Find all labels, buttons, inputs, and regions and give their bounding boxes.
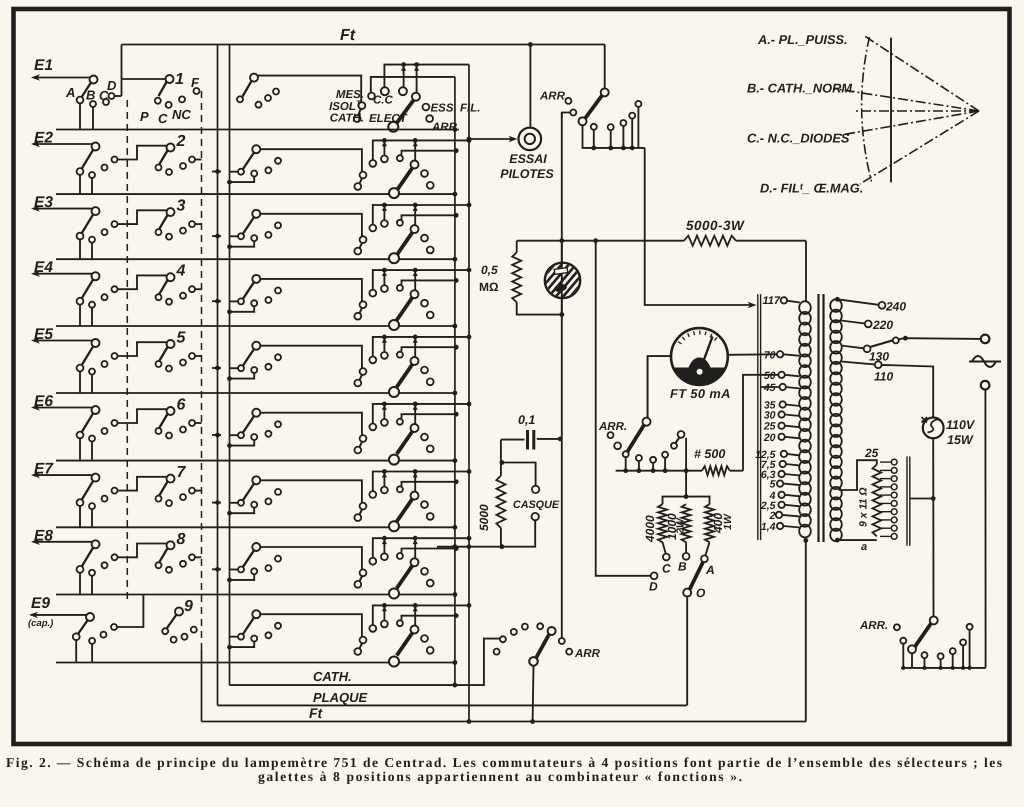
wire row 6 bracket line: [402, 414, 457, 418]
svg-text:110: 110: [874, 370, 893, 384]
wire row 7 bottom bus: [56, 526, 455, 528]
wire E5 arrow lead: [33, 340, 94, 342]
wire shaft tick row 3: [212, 235, 221, 237]
svg-text:CATH.: CATH.: [330, 113, 364, 125]
wire D contact to selector 6 bracket: [118, 409, 167, 423]
wire shaft tick row 8: [212, 568, 221, 570]
wire bracket bus x455: [454, 77, 456, 685]
wire feeder to ESSAI PILOTES jack: [469, 138, 515, 140]
wire E3 arrow lead: [33, 208, 94, 210]
resistor #500: [702, 466, 730, 475]
wire CATH bus: [230, 639, 500, 686]
wire 130 to AC terminal: [905, 337, 981, 340]
switch S8d combinator wafer: [397, 566, 413, 589]
svg-text:O: O: [696, 586, 706, 600]
switch S8a electrode selector: [82, 548, 94, 567]
transformer primary winding: [799, 301, 811, 314]
switch S8c galette contact group: [230, 569, 239, 571]
node F contact row 6: [189, 420, 195, 426]
wire feeder bus x469: [468, 65, 470, 722]
wire row 9 bracket line: [402, 616, 457, 620]
transformer secondary winding: [830, 299, 842, 312]
symbol AC sine: [969, 356, 1001, 367]
svg-text:a: a: [861, 541, 867, 553]
switch S3c galette contact group: [230, 235, 239, 237]
wire row 4 upper feed line: [373, 270, 469, 290]
wire D contact to selector 4 bracket: [118, 275, 167, 289]
wire selector 1 bracket: [122, 78, 166, 80]
svg-text:ARR.: ARR.: [859, 620, 888, 632]
resistor 400 1W: [705, 504, 714, 542]
wire row 3 upper feed line: [373, 205, 469, 225]
svg-text:ARR.: ARR.: [598, 421, 627, 433]
svg-text:E9: E9: [31, 595, 50, 612]
svg-text:Ft: Ft: [309, 705, 324, 721]
resistor bank bracket: [663, 497, 710, 505]
terminal AC top: [981, 335, 990, 344]
svg-text:F: F: [191, 75, 200, 90]
wire jack to Ft bus riser: [529, 45, 531, 128]
svg-text:CASQUE: CASQUE: [513, 499, 560, 511]
node 220 tap: [841, 321, 865, 324]
wire D contact to selector 8 bracket: [118, 544, 167, 558]
svg-text:70: 70: [764, 349, 776, 361]
switch S1a electrode selector A B C D: [81, 83, 91, 98]
wire E2 arrow lead: [33, 143, 94, 145]
wire AC bottom terminal down: [984, 390, 986, 668]
switch S7c galette contact group: [230, 502, 239, 504]
wire shaft tick row 4: [212, 300, 221, 302]
svg-text:9: 9: [184, 598, 193, 615]
wire shaft tick row 5: [212, 367, 221, 369]
svg-text:NC: NC: [172, 107, 191, 122]
transformer screen bar primary: [757, 294, 759, 540]
svg-text:A.- PL._PUISS.: A.- PL._PUISS.: [757, 32, 848, 47]
svg-text:3: 3: [177, 198, 186, 215]
svg-text:Ft: Ft: [340, 27, 356, 44]
switch ARR essai comb contacts: [591, 124, 597, 130]
wire ARR essai comb bus: [583, 125, 645, 148]
switch S1c galette contact group: [243, 81, 252, 97]
switch S7a electrode selector: [82, 481, 94, 500]
switch ARR measure comb: [623, 451, 629, 457]
svg-text:9 x 11 Ω: 9 x 11 Ω: [858, 487, 870, 527]
node ESS ARR contacts row 1: [423, 104, 430, 111]
svg-text:ESS.: ESS.: [431, 103, 457, 115]
node F contact row 5: [189, 353, 195, 359]
resistor 4000: [658, 504, 667, 542]
wire D contact to selector 7 bracket: [118, 477, 167, 491]
svg-text:C: C: [662, 562, 671, 576]
wire row 2 pivot line: [260, 149, 362, 172]
switch S7d combinator wafer: [397, 499, 413, 522]
switch S6b selector position 6: [159, 414, 167, 428]
wire O to PLAQUE bus: [686, 597, 688, 706]
switch S5d combinator wafer: [397, 364, 413, 387]
resistor 5000 casque: [500, 440, 502, 476]
wire F-contacts bus (dashed) down to Ft bottom: [201, 91, 203, 650]
switch S2d combinator wafer: [397, 168, 413, 191]
wire E7 arrow lead: [33, 474, 94, 476]
svg-text:galettes à 8 positions apparti: galettes à 8 positions appartiennent au …: [258, 769, 742, 784]
switch S4a electrode selector: [82, 279, 94, 298]
svg-text:117: 117: [763, 295, 781, 307]
svg-text:CATH.: CATH.: [313, 669, 352, 684]
switch S5a electrode selector: [82, 346, 94, 365]
wire row 4 bottom bus: [56, 325, 455, 327]
svg-text:D: D: [649, 580, 658, 594]
wire comb bus down to 117 tap: [645, 148, 753, 305]
wire secondary bottom to chain: [836, 539, 877, 541]
svg-text:D: D: [107, 78, 117, 93]
wire row 1 pivot line to ISOL contact: [258, 76, 361, 103]
svg-text:1W: 1W: [722, 513, 734, 530]
wire D contact to selector 3 bracket: [118, 210, 167, 224]
switch S1d combinator wafer: [396, 100, 414, 124]
svg-text:4000: 4000: [643, 515, 657, 543]
wire row 7 bracket line: [402, 482, 457, 486]
svg-text:4: 4: [176, 263, 186, 280]
wire shaft tick row 2: [212, 171, 221, 173]
terminal AC bottom: [981, 381, 990, 390]
wire row 4 pivot line: [260, 279, 362, 302]
svg-text:MΩ: MΩ: [479, 280, 499, 294]
switch S4c galette contact group: [230, 300, 239, 302]
svg-text:5: 5: [177, 330, 187, 347]
switch S3d combinator wafer: [397, 233, 413, 256]
wire row 7 upper feed line: [373, 472, 469, 492]
meter FT 50 mA: [648, 356, 671, 418]
node F contact row 1: [194, 88, 200, 94]
jack ESSAI PILOTES: [519, 128, 542, 151]
wire row 3 bottom bus: [56, 258, 455, 260]
wire row 2 bracket line: [402, 151, 457, 155]
svg-text:FT 50 mA: FT 50 mA: [670, 386, 731, 401]
wire row1 D to Ft vertical: [121, 45, 123, 97]
svg-text:1: 1: [175, 71, 184, 88]
node 240 tap: [835, 297, 840, 302]
node F contact row 7: [189, 488, 195, 494]
wire E8 arrow lead: [33, 541, 94, 543]
wire Ft bottom bus: [202, 721, 806, 723]
wire screen to lamp line: [910, 498, 933, 500]
svg-text:B: B: [678, 560, 687, 574]
switch S2a electrode selector: [82, 150, 94, 169]
wire HT feed line: [517, 240, 684, 242]
svg-text:PILOTES: PILOTES: [500, 167, 554, 181]
wire row 6 upper feed line: [373, 404, 469, 424]
wire D contact to selector 5 bracket: [118, 342, 167, 356]
switch S9c galette contact group: [230, 636, 239, 638]
wire row 5 upper feed line: [373, 337, 469, 357]
wire row 6 pivot line: [260, 413, 362, 436]
svg-text:(cap.): (cap.): [28, 618, 53, 629]
wire primary bottom to Ft bus: [805, 540, 807, 721]
svg-text:6: 6: [177, 397, 186, 414]
switch S6d combinator wafer: [397, 431, 413, 454]
wire row 2 bottom bus: [56, 193, 455, 195]
wire D contact to selector 2 bracket: [118, 146, 167, 160]
wire E4 arrow lead: [33, 273, 94, 275]
node 110 tap: [841, 362, 875, 365]
svg-text:2W: 2W: [675, 517, 687, 535]
svg-text:C.- N.C._DIODES: C.- N.C._DIODES: [747, 131, 850, 146]
svg-text:20: 20: [763, 432, 776, 444]
svg-text:1,4: 1,4: [761, 521, 776, 533]
wire row 1 bottom bus: [56, 129, 455, 131]
svg-text:P: P: [140, 109, 149, 124]
switch S4b selector position 4: [159, 280, 167, 294]
wire D contact row 9 riser: [117, 595, 143, 628]
resistor 1000 2W: [682, 504, 691, 542]
node F contact row 4: [189, 286, 195, 292]
wire row 7 pivot line: [260, 480, 362, 503]
node F contact row 3: [189, 221, 195, 227]
wire legend fan lines: [863, 35, 979, 111]
switch S6a electrode selector: [82, 413, 94, 432]
wire row 1 upper line: [371, 77, 455, 93]
svg-text:240: 240: [885, 300, 906, 314]
lamp neon indicator: [561, 241, 563, 263]
node F contact row 2: [189, 157, 195, 163]
svg-text:8: 8: [177, 531, 186, 548]
svg-text:25: 25: [864, 446, 879, 460]
wire row 3 pivot line: [260, 214, 362, 237]
transformer core: [817, 294, 819, 542]
svg-text:ESSAI: ESSAI: [509, 152, 547, 166]
jack CASQUE: [500, 460, 505, 465]
svg-text:D.- FILt_ Œ.MAG.: D.- FILt_ Œ.MAG.: [760, 181, 863, 196]
wire PLAQUE bus: [218, 704, 687, 706]
wire E1 arrow lead: [33, 77, 92, 79]
transformer screen bar secondary: [906, 457, 908, 546]
svg-text:5000-3W: 5000-3W: [686, 218, 745, 233]
svg-text:B: B: [86, 88, 95, 103]
wire row 9 upper feed line: [373, 605, 469, 625]
svg-text:C.C: C.C: [373, 95, 394, 107]
svg-text:PLAQUE: PLAQUE: [313, 690, 368, 705]
wire long vertical x596 to D contact: [596, 241, 651, 576]
switch S1b selector position 1: [159, 82, 167, 96]
wire E6 arrow lead: [33, 407, 94, 409]
wire primary top to HT feed: [805, 241, 807, 303]
wire Ft top bus: [122, 44, 606, 46]
wire row 8 upper feed line: [373, 538, 469, 558]
svg-text:0,1: 0,1: [518, 413, 535, 427]
wire row 9 pivot line: [260, 614, 362, 637]
node 130 tap and switch: [841, 346, 864, 349]
wire row 2 upper feed line: [373, 140, 469, 160]
switch S7b selector position 7: [159, 482, 167, 496]
wire row 4 bracket line: [402, 280, 457, 284]
wire row 5 bracket line: [402, 347, 457, 351]
switch S3b selector position 3: [159, 215, 167, 229]
svg-text:E1: E1: [34, 57, 53, 74]
wire row 5 pivot line: [260, 346, 362, 369]
svg-text:2: 2: [176, 133, 186, 150]
resistor 0,5 Mohm: [516, 241, 518, 253]
wire row 8 bottom bus: [56, 594, 455, 596]
wire lamp down to ARR switch: [932, 438, 934, 616]
wire row 9 bottom bus: [56, 662, 455, 664]
wire neon riser x562: [561, 113, 563, 642]
wire ARR secteur bus: [901, 667, 986, 669]
switch S9d combinator wafer: [397, 633, 413, 656]
wire 50V tap riser: [743, 375, 778, 471]
svg-text:C: C: [158, 111, 168, 126]
wire legend chord line: [890, 38, 892, 183]
svg-text:5: 5: [770, 479, 776, 491]
wire dashed selector coupling line left: [126, 100, 128, 603]
switch S8b selector position 8: [159, 548, 167, 562]
wire shunt riser to resistor bank: [685, 438, 687, 497]
switch ARR cath: [494, 649, 500, 655]
wire row 5 bottom bus: [56, 392, 455, 394]
svg-text:B.- CATH._NORM.: B.- CATH._NORM.: [747, 81, 856, 96]
wire shaft tick row 7: [212, 502, 221, 504]
svg-text:A: A: [705, 563, 715, 577]
switch S2c galette contact group: [230, 171, 239, 173]
wire row 8 bracket line: [402, 549, 457, 553]
switch S9a electrode selector: [78, 620, 88, 634]
switch S2b selector position 2: [159, 151, 167, 165]
switch S5b selector position 5: [159, 347, 167, 361]
svg-text:0,5: 0,5: [481, 263, 498, 277]
switch S5c galette contact group: [230, 367, 239, 369]
wire legend arc: [862, 37, 872, 182]
svg-text:A: A: [65, 85, 75, 100]
svg-text:FIL.: FIL.: [460, 103, 480, 115]
svg-text:45: 45: [763, 382, 776, 394]
wire rotary shaft line left: [217, 45, 219, 706]
wire E9 arrow lead: [31, 614, 89, 616]
resistor 5000-3W: [684, 236, 736, 246]
wire row 1 bracket line: [384, 65, 469, 88]
wire row 3 bracket line: [402, 215, 457, 219]
switch S9b selector position 9: [167, 615, 177, 629]
svg-text:220: 220: [872, 318, 893, 332]
svg-text:7: 7: [177, 464, 187, 481]
lamp 110V 15W: [923, 418, 944, 439]
wire shaft tick row 6: [212, 434, 221, 436]
svg-text:# 500: # 500: [694, 447, 725, 461]
wire contact to neon riser: [562, 113, 571, 119]
svg-text:ARR.: ARR.: [539, 91, 568, 103]
svg-text:5000: 5000: [477, 504, 491, 531]
switch S3a electrode selector: [82, 214, 94, 233]
svg-text:110V: 110V: [946, 418, 976, 432]
wire measure bus: [616, 470, 702, 472]
svg-text:Fig. 2. — Schéma de principe d: Fig. 2. — Schéma de principe du lampemèt…: [6, 755, 1002, 770]
wire row 6 bottom bus: [56, 460, 455, 462]
switch ARR essai: [604, 45, 606, 89]
svg-text:ARR: ARR: [574, 648, 601, 660]
node F contact row 8: [189, 554, 195, 560]
svg-text:50: 50: [764, 370, 776, 382]
switch S4d combinator wafer: [397, 298, 413, 321]
wire 45V tap stub: [761, 386, 780, 388]
svg-text:15W: 15W: [947, 433, 974, 447]
switch fonction C B A D O: [663, 542, 666, 554]
wire rotary shaft line right: [229, 45, 231, 686]
wire row 8 pivot line: [260, 547, 362, 570]
svg-text:30: 30: [764, 410, 776, 422]
switch S6c galette contact group: [230, 434, 239, 436]
